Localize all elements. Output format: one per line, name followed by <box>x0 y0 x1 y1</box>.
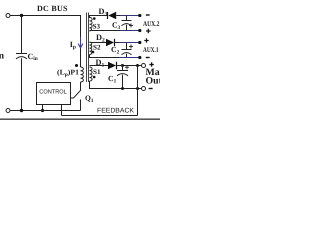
polarity dot S1 <box>93 76 96 79</box>
node load top <box>136 64 139 67</box>
svg-text:S3: S3 <box>93 23 101 31</box>
feedback line <box>62 115 138 117</box>
wire S1 bottom <box>90 81 142 89</box>
bottom scan edge line <box>0 118 160 120</box>
wire Cin bottom lead <box>21 58 23 110</box>
label plus C1 <box>125 65 129 69</box>
capacitor C3 <box>126 16 128 21</box>
wire S3 to D3 <box>90 16 108 19</box>
capacitor C2 <box>126 43 128 50</box>
svg-text:S1: S1 <box>93 68 101 76</box>
terminal dot AUX1 + <box>138 41 141 44</box>
node C1 top <box>121 64 124 67</box>
wire load vertical <box>137 66 139 116</box>
wire S2 to D2 <box>90 42 107 44</box>
label minus <box>146 14 150 16</box>
node control-rail <box>41 109 44 112</box>
output terminal + <box>142 64 146 68</box>
node feedback tap <box>136 87 139 90</box>
wire DC bus top rail <box>10 15 81 17</box>
control block <box>37 83 71 105</box>
diode D3 <box>107 12 109 19</box>
wire primary drop <box>80 15 82 67</box>
label plus C2 <box>129 45 133 49</box>
label minus <box>146 57 150 59</box>
svg-text:n: n <box>0 51 5 61</box>
wire Cin top lead <box>21 16 23 54</box>
capacitor C1 <box>122 66 124 71</box>
svg-text:Output: Output <box>146 76 161 87</box>
terminal dot AUX2 + <box>138 29 141 32</box>
switch Q1 blade <box>74 90 82 98</box>
ground rail <box>10 110 80 112</box>
capacitor Cin <box>16 54 27 60</box>
secondary winding S1 <box>90 67 93 81</box>
polarity dot S3 <box>93 17 96 20</box>
terminal dot AUX1 - <box>138 56 141 59</box>
wire gate drive <box>71 97 74 99</box>
wire feedback drop <box>61 105 63 116</box>
input terminal + <box>6 14 10 18</box>
svg-text:S2: S2 <box>93 44 101 52</box>
label plus <box>146 29 151 34</box>
node Cin bottom <box>20 109 23 112</box>
wire D3 to AUX2- <box>116 15 120 17</box>
current arrow Ip <box>78 37 83 48</box>
input terminal - <box>6 109 10 113</box>
wire switch bottom <box>80 100 82 111</box>
label plus <box>144 38 148 42</box>
svg-text:AUX.1: AUX.1 <box>143 46 159 54</box>
label plus main <box>149 62 153 66</box>
label plus C3 <box>129 24 133 28</box>
wire control to rail <box>42 105 44 111</box>
wire S3 bottom to AUX2+ <box>90 30 121 32</box>
node Cin tap <box>20 14 23 17</box>
output terminal - <box>142 87 146 91</box>
svg-text:AUX.2: AUX.2 <box>143 20 160 28</box>
node C1 bottom <box>121 87 124 90</box>
svg-text:CONTROL: CONTROL <box>39 89 67 96</box>
diode D2 <box>106 39 114 46</box>
wire D2 to AUX1+ <box>115 42 120 44</box>
label minus main <box>149 88 153 90</box>
primary winding P1 <box>81 67 84 82</box>
svg-text:(Lp)P1: (Lp)P1 <box>57 68 79 79</box>
svg-text:FEEDBACK: FEEDBACK <box>97 107 134 114</box>
polarity dot S2 <box>92 51 95 54</box>
wire S2 bottom to AUX1- <box>90 54 120 57</box>
transformer core <box>86 13 88 83</box>
terminal dot AUX2 - <box>138 14 141 17</box>
secondary winding S3 <box>90 18 93 32</box>
svg-text:DC BUS: DC BUS <box>37 4 68 13</box>
polarity dot primary <box>75 64 78 67</box>
wire D1 to main + <box>117 65 142 67</box>
wire S1 to D1 <box>90 65 109 67</box>
wire to switch <box>80 82 82 90</box>
secondary winding S2 <box>90 42 92 54</box>
diode D1 <box>108 62 116 69</box>
